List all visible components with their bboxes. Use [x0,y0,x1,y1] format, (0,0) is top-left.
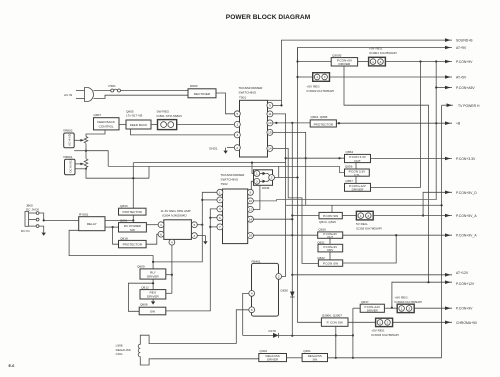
wire pot chain [85,144,87,159]
diode D830 [281,275,295,337]
svg-text:OUT: OUT [327,235,333,239]
svg-text:SWITCHING: SWITCHING [239,91,257,95]
regulator IC3004 [395,296,423,313]
svg-text:3: 3 [194,234,196,238]
svg-text:3: 3 [387,321,389,325]
wire FB401 pin6 to coil line [236,310,249,344]
wire [119,123,126,125]
wire Q857 out up to P.CON+9V line [371,62,421,188]
svg-text:9: 9 [269,104,271,108]
svg-text:DRV: DRV [327,248,333,252]
svg-text:VR801: VR801 [63,155,73,159]
wire T902 pin10 long line [253,200,436,201]
T901 pin 1 [234,121,240,127]
svg-text:P.CON+A5V: P.CON+A5V [456,86,475,90]
svg-text:Q856: Q856 [345,165,353,169]
node P.CON+9V lower [414,307,452,309]
svg-text:RECTIFIER: RECTIFIER [194,92,211,96]
regulator IC303 [342,211,382,230]
svg-text:3: 3 [367,214,369,218]
potentiometer VR802 [74,137,88,144]
svg-text:AT+5V: AT+5V [456,76,467,80]
T902 pin 9 [247,189,253,195]
svg-text:3: 3 [408,307,410,311]
rail x292 AT+12V / D830 [292,123,452,275]
svg-text:1: 1 [379,321,381,325]
svg-text:LTx-917-VB: LTx-917-VB [126,113,142,117]
wire T902 pin2 [202,199,217,201]
wire VR801 bottom to vertical x133 [86,168,149,179]
Q805 feed back [126,109,151,129]
svg-text:Q402: Q402 [260,349,268,353]
Q810 P.CON+9V OUT [318,228,343,239]
svg-text:1: 1 [160,223,162,227]
svg-text:DRIVER: DRIVER [147,295,159,299]
T902 pin 6 [217,215,223,221]
svg-text:P.CON+9V_A: P.CON+9V_A [456,234,477,238]
svg-text:P.CON+9V: P.CON+9V [456,307,473,311]
diode D478 [243,329,353,338]
svg-text:10: 10 [249,199,253,203]
svg-text:FB401: FB401 [252,259,261,263]
svg-text:+9V REG.: +9V REG. [395,296,409,300]
svg-text:PROTECTOR: PROTECTOR [314,123,334,127]
svg-text:SWITCHING: SWITCHING [221,177,239,181]
svg-text:5: 5 [236,112,238,116]
svg-text:Q806: Q806 [140,303,148,307]
svg-text:2: 2 [271,176,273,180]
Q854 P.CON 3.3V OUT [345,150,371,163]
rail Q847 input from degauss line [352,308,354,358]
svg-text:5V REG.: 5V REG. [356,222,368,226]
node +B [336,122,452,124]
wire T902 pin9 up to D846 [251,181,254,189]
T901 pin 13 [267,120,273,126]
svg-text:IC804 NJM2904D: IC804 NJM2904D [162,214,187,218]
svg-text:RY801: RY801 [79,212,89,216]
svg-text:1: 1 [372,60,374,64]
rail x210 T902 pin3/6/7 to Q806 SW [166,209,217,311]
node P.CON+12V [392,282,452,308]
Q821 P.CON+9V DRV [317,238,343,260]
svg-text:SW: SW [130,228,135,232]
svg-text:AC HI ADJ: AC HI ADJ [68,132,72,145]
svg-text:11: 11 [268,112,271,116]
wire relay loop to RLY driver [69,230,153,269]
wire T902 pin14 to rail [253,218,292,220]
svg-text:D478: D478 [269,329,277,333]
svg-text:9: 9 [250,191,252,195]
svg-text:+5V REG: +5V REG [307,84,321,88]
svg-text:6: 6 [160,232,162,236]
fuse P901 [109,84,121,92]
wire Q3006 bottom to degauss line [335,326,337,358]
Q801 DC POWER SW [119,219,147,232]
svg-text:CHROMA+5V: CHROMA+5V [456,321,478,325]
svg-text:3: 3 [324,75,326,79]
svg-text:DRIVER: DRIVER [147,275,159,279]
Q822 P.CON SW [317,256,342,267]
svg-text:Q801: Q801 [120,219,128,223]
op-amp IC804 11.3V REG [158,209,197,245]
svg-text:15: 15 [268,131,272,135]
svg-text:Q401: Q401 [303,349,311,353]
switch Q401 DEGAUSS SW [302,349,327,361]
ground jack [39,226,46,236]
svg-text:Q821: Q821 [317,240,325,244]
regulator IC3003 [348,318,399,337]
svg-text:+5V REG.: +5V REG. [371,329,385,333]
svg-text:DRIVER: DRIVER [339,62,351,66]
svg-text:3: 3 [236,133,238,137]
svg-text:SOUND+B: SOUND+B [456,39,473,43]
svg-text:P.CON+12V: P.CON+12V [456,282,475,286]
svg-text:D846: D846 [262,186,270,190]
relay RY801 [79,212,105,230]
svg-text:POWER BLOCK DIAGRAM: POWER BLOCK DIAGRAM [226,14,311,21]
wire degauss out to rail x441 [328,357,442,359]
svg-text:Q834: Q834 [120,204,128,208]
svg-text:AC IN: AC IN [64,93,72,97]
ground GND1 [209,146,234,154]
ground Q812 emitter [151,299,155,305]
AC plug J801 [64,88,94,102]
DC jack J860 [21,203,40,232]
svg-text:4: 4 [171,240,173,244]
protector Q834 [119,204,147,215]
rail from AT+9V corner down to Q3006 [298,48,322,323]
svg-text:Q847: Q847 [361,300,369,304]
wire AC bottom line [94,95,189,98]
svg-text:SW REG.: SW REG. [157,109,171,113]
wire SW REG to T901 pin1 [177,123,235,125]
rectifier D80X [188,84,216,98]
svg-text:TRANSFORMER: TRANSFORMER [239,86,264,90]
svg-text:IC3001 KIA7809API: IC3001 KIA7809API [369,51,397,55]
svg-text:TV POWER H: TV POWER H [458,104,480,108]
Q807 feed back control [94,113,120,130]
svg-text:FEED BACK: FEED BACK [97,120,115,124]
svg-text:2: 2 [219,198,221,202]
wire coil bottom line [151,358,259,360]
node TV POWER H [344,66,429,282]
svg-text:6: 6 [251,308,253,312]
diode pack D846 [254,170,275,190]
svg-text:Q3005: Q3005 [332,53,342,57]
svg-text:T902: T902 [221,182,228,186]
T902 pin 7 [217,224,223,230]
transformer T902 [221,173,248,244]
SW REG IC801 [157,109,183,129]
svg-text:7: 7 [219,225,221,229]
node P.CON+9V_A [343,234,452,236]
svg-text:DRIVER: DRIVER [267,358,278,362]
svg-text:Q3006, Q3007: Q3006, Q3007 [322,314,343,318]
svg-text:T901: T901 [239,96,246,100]
svg-text:16: 16 [249,234,253,238]
driver Q402 DEGAUSS DRIVER [259,349,287,361]
svg-text:Q857: Q857 [345,179,353,183]
T901 pin 9 [267,102,273,108]
svg-text:IC3003 KIA7805API: IC3003 KIA7805API [371,333,399,337]
wire D846 pin2 to rail [275,177,298,179]
svg-text:E-6: E-6 [9,364,15,368]
svg-text:SW: SW [150,310,155,314]
svg-text:6: 6 [219,216,221,220]
svg-text:11.3V REG OPE AMP: 11.3V REG OPE AMP [161,209,191,213]
node P.CON+5V_D [423,192,452,215]
wire driver bracket [128,283,153,311]
node P.CON+5V_A [373,215,452,217]
svg-text:+9V REG.: +9V REG. [369,47,383,51]
svg-text:14: 14 [268,147,272,151]
Q847 P.CON+12V DRIVER [353,300,397,312]
T901 pin 15 [267,129,273,135]
svg-text:OUT: OUT [354,159,361,163]
svg-text:3: 3 [219,207,221,211]
wire feedback to T901 pin3 [131,129,235,135]
svg-text:14: 14 [249,217,253,221]
wire lineA to D846 [86,151,108,167]
svg-text:4: 4 [251,292,253,296]
svg-text:PROTECTOR: PROTECTOR [123,210,143,214]
svg-text:CTL: CTL [354,173,360,177]
svg-text:1: 1 [401,307,403,311]
svg-text:1: 1 [316,75,318,79]
T901 pin 3 [234,132,240,138]
svg-text:AT+9V: AT+9V [456,46,467,50]
svg-text:+B: +B [456,122,461,126]
svg-text:P.CON+5V_D: P.CON+5V_D [456,191,477,195]
svg-text:P.CON+9V: P.CON+9V [456,60,473,64]
svg-text:3: 3 [380,60,382,64]
VR801 DC HI ADJ [63,155,75,175]
T901 pin 2 [234,145,240,151]
wire relay lower to Q801/Q818 [105,226,119,228]
wire rectifier to T901 pin5 [216,93,234,114]
svg-text:IC303 KIA7805API: IC303 KIA7805API [356,226,382,230]
svg-text:DRIVER: DRIVER [352,188,364,192]
svg-text:Q822: Q822 [317,256,325,260]
svg-text:P.CON+3.3V: P.CON+3.3V [456,157,476,161]
svg-text:DC JACK: DC JACK [26,208,40,212]
svg-text:5: 5 [194,223,196,227]
wire FB401 pin4 to D478 line [243,293,249,335]
node AT+9V [298,48,453,62]
svg-text:DC IN: DC IN [21,229,29,233]
svg-text:Q809: Q809 [137,264,145,268]
svg-text:DRIVER: DRIVER [367,308,378,312]
wire relay to Q834/Q801 chain [105,219,133,221]
driver Q3005 [298,53,358,66]
svg-text:PROTECTOR: PROTECTOR [123,243,143,247]
svg-text:Q807: Q807 [94,113,102,117]
svg-text:Q812: Q812 [141,285,149,289]
ground op-amp pin3 [197,236,207,245]
T902 pin 3 [217,206,223,212]
svg-text:COIL: COIL [116,352,124,356]
T902 pin 14 [247,216,253,222]
driver Q812 REG DRIVER [140,285,166,299]
rail x202 T902 pin1 [153,192,217,262]
regulator IC3001 [358,47,397,66]
Q857 P.CON+12V DRIVER [345,179,371,192]
rail x441 degauss to TV POWER H [441,105,443,358]
svg-text:Q813, Q815: Q813, Q815 [319,220,336,224]
svg-text:SW: SW [312,358,317,362]
wire Q801 to op-amp pin1 [146,224,158,226]
svg-text:P901: P901 [109,84,117,88]
wire T901 pin11 down to FB401 pin2 [273,114,286,277]
Q856 P.CON 3.3V CTL [345,163,370,184]
svg-text:AT+12V: AT+12V [456,271,469,275]
svg-text:P.CON SW: P.CON SW [323,262,338,266]
wire to Q834 [132,163,134,209]
T901 pin 14 [267,145,273,151]
rail x436 [435,62,437,200]
node P.CON+3.3V input line [286,157,345,159]
svg-text:IC801 STR-S6823: IC801 STR-S6823 [157,114,183,118]
svg-text:3: 3 [256,180,258,184]
wire op-amp pin5 to rail [197,224,202,226]
regulator IC3002 [298,73,335,93]
node P.CON+A5V [436,87,452,89]
driver Q809 RLY DRIVER [137,264,166,279]
ferrite block FB401 [249,259,282,316]
svg-text:Q810: Q810 [318,228,326,232]
wire Q822 out up to P.CON+9V_A line [343,235,397,263]
wire T902 pin16 to Q810 input [253,234,317,236]
node P.CON+9V output [385,61,452,63]
svg-text:P.CON SW: P.CON SW [323,214,338,218]
node CHROMA+5V [393,321,452,323]
svg-text:VR802: VR802 [63,129,73,133]
T902 pin 16 [247,233,253,239]
T901 pin 11 [267,111,273,117]
svg-text:13: 13 [268,121,272,125]
wire Q807 to pots [86,130,105,137]
wire AC top line [94,90,111,92]
T902 pin 10 [247,198,253,204]
svg-text:Q854: Q854 [346,150,354,154]
svg-text:2: 2 [278,275,280,279]
switch Q806 SW [139,303,166,315]
transformer T901 [239,86,282,157]
wire [151,123,158,125]
svg-text:CONTROL: CONTROL [99,124,114,128]
Q3006 Q3007 P.CON SW [321,314,348,327]
T902 pin 1 [217,189,223,195]
T902 pin 12 [247,206,253,212]
wire coil top line [151,343,237,345]
svg-text:P. CON SW: P. CON SW [327,321,343,325]
wire lineB [108,166,344,172]
svg-text:P.CON+5V_A: P.CON+5V_A [456,214,477,218]
svg-text:Q804, Q808: Q804, Q808 [311,115,328,119]
T902 pin 2 [217,197,223,203]
svg-text:12: 12 [249,208,253,212]
wire T901 pin15 rail to Q813 top [273,132,306,205]
svg-text:GND1: GND1 [209,146,218,150]
protector Q818 [119,237,147,248]
svg-text:1: 1 [236,123,238,127]
svg-text:D80X: D80X [190,84,198,88]
degauss coil L908 [116,335,151,365]
svg-text:1: 1 [256,172,258,176]
node SOUND+B : T901 pin9 rail [273,40,452,105]
svg-text:FEED BACK: FEED BACK [130,123,148,127]
node AT+5V [330,76,453,78]
svg-text:IC3002 KIA7805API: IC3002 KIA7805API [307,89,335,93]
wire T901 pin14 to Q822 [273,148,319,263]
wire Q818 to op-amp pin6 [146,234,158,244]
svg-text:DC HI ADJ: DC HI ADJ [68,159,72,173]
wire T902 pin12 to D846 bottom [253,185,260,209]
protector Q804 Q808 [273,115,337,127]
T901 pin 5 [234,111,240,117]
VR802 AC HI ADJ [63,129,74,148]
svg-text:1: 1 [360,214,362,218]
wire op-amp pin4 rail down [171,245,173,293]
svg-text:D830: D830 [281,289,289,293]
svg-text:RELAY: RELAY [87,222,97,226]
wire jack to relay [39,213,79,220]
svg-text:1: 1 [219,191,221,195]
Q813 Q815 P.CON SW [292,212,342,224]
svg-text:2: 2 [236,146,238,150]
potentiometer VR801 [75,159,88,168]
svg-text:IC3004 KIA7809API: IC3004 KIA7809API [395,300,423,304]
